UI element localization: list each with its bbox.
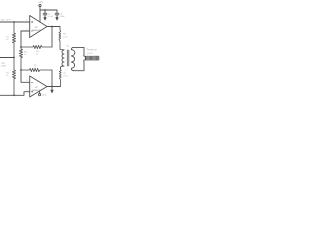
node H output junction dot (51, 86, 53, 88)
wire feedback left branch vertical (20, 31, 22, 47)
wire U1B inverting branch vertical (21, 70, 30, 82)
svg-text:THS6012: THS6012 (32, 90, 42, 92)
resistor R3 1k feedback horizontal (21, 45, 52, 48)
capacitor C1 0.1uF (43, 10, 47, 18)
svg-text:R1: R1 (6, 36, 10, 38)
wire -6V supply stub (39, 91, 41, 93)
svg-text:1k: 1k (24, 54, 27, 56)
twisted pair cable body (84, 55, 99, 62)
svg-text:12.5: 12.5 (63, 36, 68, 38)
node C junction dot on bottom rail (13, 94, 15, 96)
twisted pair cable ribs (86, 56, 98, 60)
svg-text:1k: 1k (6, 39, 9, 41)
supply terminal -6V circle (39, 94, 41, 96)
transformer T1 core lines (67, 50, 69, 66)
capacitor C2 6.8uF (55, 10, 59, 18)
resistor R2 1k vertical (12, 58, 15, 96)
resistor R7 12.5 ohm series bottom (59, 69, 61, 87)
svg-text:VIN 1 VPP: VIN 1 VPP (1, 20, 11, 22)
op-amp U1A minus marker (31, 30, 33, 32)
wire feedback vertical to U1B output node (51, 70, 53, 87)
ground under U1B output node (51, 87, 53, 91)
svg-text:1/2: 1/2 (35, 27, 39, 29)
svg-text:7: 7 (48, 84, 50, 86)
op-amp U1A plus marker (31, 21, 33, 23)
wire feedback right vertical to output node (51, 27, 53, 48)
resistor R1 1k vertical (12, 22, 15, 58)
node D junction dot (20, 46, 22, 48)
node G output junction dot (51, 26, 53, 28)
svg-text:6.8uF: 6.8uF (60, 16, 66, 18)
svg-text:-6 V: -6 V (42, 95, 47, 97)
wire input VI+ to U1A noninverting input (0, 21, 30, 23)
wire input VI- lower left (0, 57, 14, 59)
op-amp U1A triangle (30, 16, 47, 38)
svg-text:3: 3 (26, 20, 28, 22)
resistor R5 1k feedback horizontal (21, 68, 52, 71)
transformer T1 secondary winding (71, 47, 74, 70)
wire U1B output (47, 86, 60, 88)
svg-text:1k: 1k (36, 53, 39, 55)
wire U1A output (47, 26, 60, 28)
wire secondary bottom to twisted pair (74, 62, 85, 71)
wire U1A inverting input (21, 30, 30, 32)
wire bottom rail (0, 92, 30, 96)
supply terminal +6V circle (39, 4, 41, 6)
resistor R4 1k gain vertical (19, 47, 22, 70)
svg-text:R2: R2 (6, 72, 10, 74)
op-amp U1B triangle (30, 76, 47, 97)
op-amp U1B plus marker (31, 91, 33, 93)
ground under C1 (44, 18, 46, 20)
svg-text:1: 1 (48, 24, 50, 26)
svg-text:R7: R7 (63, 73, 67, 75)
svg-text:THS6012: THS6012 (32, 30, 42, 32)
svg-text:1/2: 1/2 (35, 87, 39, 89)
svg-text:2: 2 (26, 29, 28, 31)
svg-text:1k: 1k (34, 67, 37, 69)
wire secondary top to twisted pair (74, 47, 85, 54)
node F junction dot (44, 9, 46, 11)
node B junction dot (13, 57, 15, 59)
svg-text:GND: GND (1, 65, 6, 67)
svg-text:T1: T1 (66, 46, 69, 48)
node E junction dot (20, 69, 22, 71)
transformer T1 primary winding (60, 50, 64, 69)
svg-text:12.5: 12.5 (63, 76, 68, 78)
svg-text:R6: R6 (63, 34, 67, 36)
resistor R6 12.5 ohm series top (59, 27, 64, 50)
svg-text:1k: 1k (6, 75, 9, 77)
node A junction dot (13, 21, 15, 23)
svg-text:+6 V: +6 V (38, 2, 43, 4)
svg-text:0.1uF: 0.1uF (48, 16, 54, 18)
wire +6V supply to U1A and decoupling rail (40, 7, 57, 22)
ground under C2 (56, 18, 58, 20)
op-amp U1B minus marker (31, 81, 33, 83)
svg-text:pair: pair (87, 52, 93, 55)
